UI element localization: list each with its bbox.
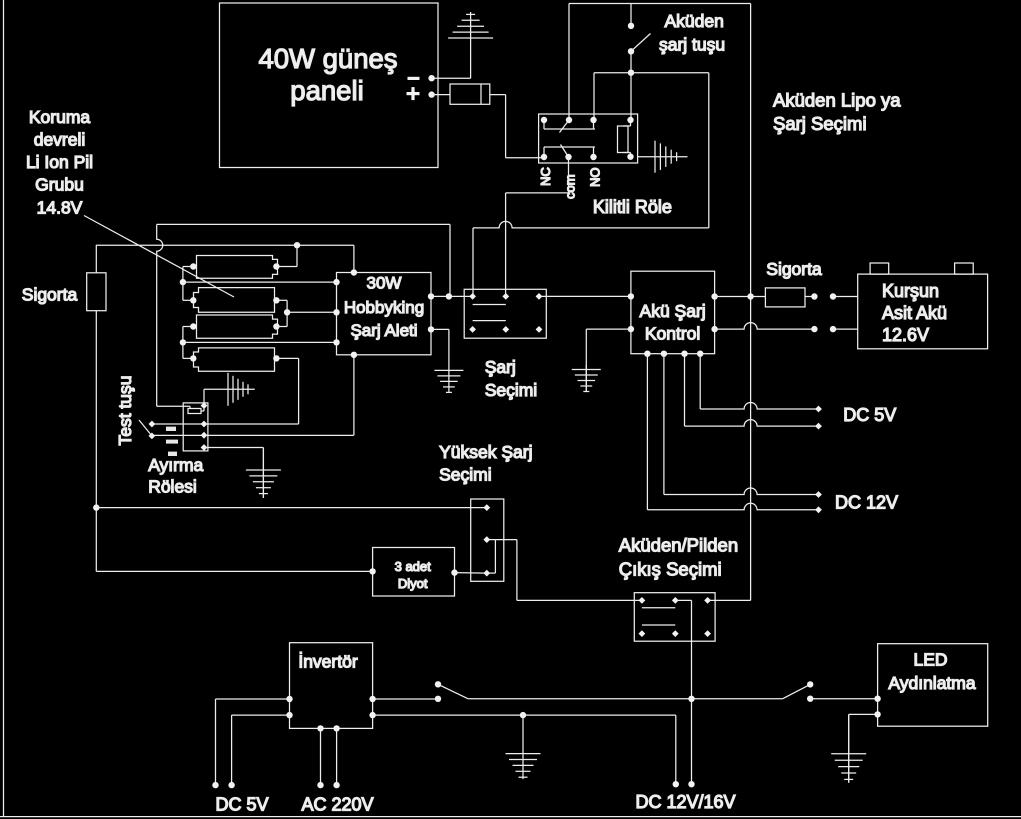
connector J1 pin 3 (536, 293, 543, 300)
node balance bus2 (180, 339, 186, 345)
ground below charger out2 (434, 368, 463, 393)
label DC 12V (835, 493, 898, 513)
svg-text:Hobbyking: Hobbyking (344, 298, 424, 317)
controller pin b3 (681, 351, 687, 357)
wire J3 pin2 output down (675, 600, 691, 784)
wire bus drop to charger top pin (353, 245, 355, 272)
label DC 12V/16V (635, 792, 735, 812)
node DC12V/16V terminal right (688, 781, 694, 787)
wire balance bus1 to charger (183, 281, 337, 283)
wire controller out1 to fuse (715, 296, 766, 298)
relay K1 pin NC-top (541, 117, 547, 123)
svg-text:com: com (563, 174, 578, 199)
svg-text:Seçimi: Seçimi (485, 380, 538, 400)
svg-text:Aküden/Pilden: Aküden/Pilden (619, 535, 738, 556)
label Test tuşu (115, 375, 135, 445)
wire diode to relay NC (490, 95, 541, 158)
wire DC12V upper (hops rail) (664, 354, 819, 495)
connector J1 pin 4 (469, 326, 476, 333)
connector J3 pin 5 (672, 630, 679, 637)
svg-text:Aküden Lipo ya: Aküden Lipo ya (773, 90, 901, 111)
connector J3 pin 1 (639, 597, 646, 604)
charger pin bal1 (333, 279, 339, 285)
node rail junction (747, 293, 753, 299)
wire battery top bus (96, 244, 354, 246)
wire right branch vertical (708, 73, 710, 228)
svg-text:3 adet: 3 adet (395, 559, 432, 574)
svg-text:Rölesi: Rölesi (148, 477, 197, 497)
svg-text:Sigorta: Sigorta (22, 285, 78, 305)
wire loop top horizontal (157, 223, 450, 225)
label Sigorta (right) (766, 259, 822, 279)
switch S1 arm (Aküden şarj tuşu) (631, 34, 651, 52)
connector J1 pin 2 (502, 293, 509, 300)
battery cell B1 (197, 256, 278, 279)
wire charger out1 to connector (431, 295, 473, 297)
node cell1 minus (190, 263, 196, 269)
ground on 12V feed (506, 715, 541, 779)
wire NO branch horizontal (594, 72, 709, 74)
charger pin bal2 (333, 309, 339, 315)
svg-text:İnvertör: İnvertör (298, 652, 357, 672)
node DC5V out terminal 2 (228, 782, 234, 788)
LED pin 1 (874, 696, 880, 702)
connector J3 link bars (642, 608, 675, 625)
node output junction (688, 696, 694, 702)
node cell3 minus (190, 323, 196, 329)
svg-text:Şarj Seçimi: Şarj Seçimi (773, 113, 867, 134)
relay K1 pin com-top (566, 117, 572, 123)
node cell1 plus (273, 263, 279, 269)
charger pin top (351, 269, 357, 275)
controller pin out2 (711, 326, 717, 332)
charger pin bal3 (333, 339, 339, 345)
wire J2 pin2 output (495, 540, 642, 601)
wire DC12V lower (hops rail) (647, 354, 818, 510)
wire fuse to terminal (805, 296, 814, 298)
inverter label (298, 652, 357, 672)
leader line to battery pack (84, 216, 234, 298)
relay K1 top switch arm (560, 120, 570, 133)
svg-text:Akü Şarj: Akü Şarj (640, 301, 706, 321)
diode block label (395, 559, 432, 591)
node terminal a2 (830, 293, 836, 299)
inverter pin R2 (369, 712, 375, 718)
relay K1 bottom switch arm (561, 145, 569, 158)
node diode block right pin (451, 569, 457, 575)
wire loop right drop (449, 224, 451, 296)
wire balance link cells3-4 left (183, 327, 193, 359)
wire J2 pin2 inner jog (487, 540, 496, 574)
charger pin bottom (351, 352, 357, 358)
node DC12V/16V terminal left (673, 781, 679, 787)
node DC12V lower terminal (815, 506, 822, 513)
inverter pin B2 (333, 725, 339, 731)
label NC (538, 167, 553, 186)
connector J2 pin 3 (483, 570, 490, 577)
battery cell B4 (194, 348, 275, 371)
label com (563, 174, 578, 199)
node balance bus3 (284, 309, 290, 315)
node AC220V terminal 2 (333, 782, 339, 788)
relay K2 pin 2 (201, 421, 208, 428)
inverter pin B1 (317, 725, 323, 731)
node terminal b1 (811, 326, 817, 332)
connector J3 box (Çıkış Seçimi) (634, 593, 715, 642)
svg-text:NC: NC (538, 167, 553, 186)
wire NO net to connector pin1 (473, 221, 709, 297)
panel plus terminal mark (407, 87, 420, 100)
svg-text:DC 12V: DC 12V (835, 493, 898, 513)
solar panel PV1 box (220, 3, 439, 168)
ground at relay K1 coil (638, 141, 688, 173)
relay K1 pin NO-top (590, 117, 596, 123)
wire fuse rail to diode block (96, 570, 372, 572)
node DC5V upper terminal (815, 406, 822, 413)
wire balance link cells1-2 left (183, 267, 193, 301)
svg-text:Aküden: Aküden (665, 11, 724, 31)
ground (antenna style) at panel minus (448, 12, 493, 78)
svg-text:paneli: paneli (290, 75, 363, 106)
wire balance link cells2-3 right (276, 300, 287, 326)
relay K2 pin coil (201, 402, 208, 409)
svg-text:Kurşun: Kurşun (882, 281, 939, 301)
relay K1 pin com (565, 154, 571, 160)
relay K1 coil pin bottom (627, 154, 633, 160)
svg-text:şarj tuşu: şarj tuşu (659, 35, 725, 55)
node top bus junction (294, 242, 300, 248)
wire loop left drop (hops battery bus) (157, 224, 188, 406)
wire inverter DC5V out2 (232, 715, 290, 785)
wire DC5V upper (hops rail) (700, 354, 818, 409)
svg-text:Koruma: Koruma (29, 107, 91, 127)
controller pin in1 (628, 293, 634, 299)
svg-text:Çıkış Seçimi: Çıkış Seçimi (619, 559, 722, 580)
node LED switch contact low (807, 696, 813, 702)
lead-acid battery BT1 box (858, 274, 988, 349)
label Yüksek Şarj Seçimi (439, 442, 532, 485)
relay K1 box (Kilitli Röle) (539, 114, 638, 163)
wire terminal to battery minus (833, 328, 858, 330)
svg-text:LED: LED (913, 650, 947, 670)
LED lamp box (LED Aydınlatma) (878, 644, 988, 727)
wire switch to relay coil (630, 51, 632, 120)
connector J2 pin 1 (483, 504, 490, 511)
wire top bus (569, 3, 751, 5)
controller pin b4 (697, 351, 703, 357)
svg-text:Test tuşu: Test tuşu (115, 375, 135, 445)
svg-text:Kilitli Röle: Kilitli Röle (593, 197, 672, 217)
wire terminal to battery plus (833, 296, 858, 298)
wire relay K2 pin4 to ground (204, 448, 263, 499)
test switch contact top (149, 421, 156, 428)
wire fuse top lead (95, 245, 97, 273)
wire J3 pin3 to rail (708, 599, 751, 601)
svg-text:Kontrol: Kontrol (645, 324, 700, 344)
svg-text:devreli: devreli (34, 130, 86, 150)
node inverter switch contact low (435, 696, 441, 702)
wire cell4 plus to Ayırma relay (152, 358, 299, 424)
node cell4 minus (190, 355, 196, 361)
connector J1 pin 1 (469, 293, 476, 300)
ground at relay K2 coil (204, 373, 255, 406)
wire com to charge-select connector (506, 157, 569, 297)
LED pin 2 (874, 711, 880, 717)
border frame bottom edge (0, 816, 1021, 818)
node cell3 plus (273, 323, 279, 329)
svg-text:Diyot: Diyot (398, 576, 428, 591)
wire inverter 12V feed (373, 715, 676, 784)
node panel minus (428, 75, 434, 81)
connector J2 box (Yüksek Şarj Seçimi) (471, 499, 504, 581)
wire inverter DC5V out1 (216, 699, 290, 785)
ground at LED (831, 714, 866, 782)
wire connector J1 to charge controller (539, 295, 631, 297)
ground at relay K2 pin4 (246, 448, 281, 499)
connector J3 pin 3 (704, 597, 711, 604)
wire main output bus (468, 698, 783, 700)
connector J1 box (Şarj Seçimi) (464, 289, 546, 338)
node switch S1 top (628, 23, 634, 29)
wire fuse rail to J2 top (96, 507, 487, 509)
node LED switch contact high (807, 681, 813, 687)
relay K2 box (Ayırma Rölesi) (183, 403, 208, 451)
relay K1 coil (618, 120, 631, 157)
wire controller ground (586, 329, 631, 392)
label Koruma devreli Li Ion Pil Grubu 14.8V (26, 107, 93, 218)
test switch arm (139, 420, 152, 436)
label Sigorta (left) (22, 285, 78, 305)
diode block box (3 adet Diyot) (373, 548, 455, 597)
svg-text:Ayırma: Ayırma (148, 455, 203, 475)
inverter pin R1 (369, 696, 375, 702)
node DC5V out terminal 1 (212, 782, 218, 788)
connector J1 pin 6 (536, 326, 543, 333)
node fuse rail junction (93, 504, 99, 510)
svg-text:40W güneş: 40W güneş (258, 43, 397, 74)
switch S3 arm (LED) (783, 684, 811, 698)
fuse F2 (right Sigorta) (765, 288, 805, 307)
wire diode block to J2 pin3 (455, 572, 487, 575)
wire relay K2 output (152, 434, 354, 436)
relay K1 pin NO (590, 154, 596, 160)
svg-text:Aydınlatma: Aydınlatma (888, 673, 975, 693)
svg-text:14.8V: 14.8V (37, 198, 83, 218)
node panel plus (428, 91, 434, 97)
label NO (588, 168, 603, 188)
connector J2 pin 2 (483, 536, 490, 543)
charger pin out2 (428, 326, 434, 332)
label Aküden şarj tuşu (659, 11, 725, 55)
label DC 5V (bottom) (215, 795, 268, 815)
wire NO branch drop (593, 73, 595, 120)
border frame left edge (3, 0, 5, 817)
wire branch to cell1 plus (276, 245, 297, 266)
svg-text:Yüksek Şarj: Yüksek Şarj (439, 442, 532, 462)
node tee above connector (446, 293, 452, 299)
relay K1 coil pin top (627, 117, 633, 123)
node inverter switch contact high (435, 681, 441, 687)
connector J1 link bars (473, 305, 506, 321)
wire switch upper segment (630, 4, 632, 26)
node diode block left pin (369, 568, 375, 574)
node cell2 plus (273, 297, 279, 303)
ground at controller input (572, 365, 601, 392)
wire inverter AC out2 (336, 728, 338, 785)
svg-text:Li Ion Pil: Li Ion Pil (26, 152, 93, 172)
relay K2 pin 4 (201, 444, 208, 451)
diode D1 (block with cathode band) (450, 84, 490, 104)
label Aküden Lipo ya / Şarj Seçimi (773, 90, 901, 135)
node DC5V lower terminal (815, 423, 822, 430)
svg-text:AC 220V: AC 220V (301, 795, 373, 815)
node AC220V terminal 1 (317, 782, 323, 788)
wire controller out2 to terminal (hops rail) (715, 323, 815, 330)
node junction coil feed (628, 70, 634, 76)
controller U2 box (Akü Şarj Kontrol) (631, 271, 715, 354)
relay K2 coil (188, 406, 204, 414)
charger U1 label (344, 274, 424, 341)
wire fuse bottom rail (95, 311, 97, 572)
connector J3 pin 2 (672, 597, 679, 604)
relay K1 pin NC (541, 154, 547, 160)
svg-text:DC 12V/16V: DC 12V/16V (635, 792, 735, 812)
LED label (888, 650, 975, 694)
wire panel plus to diode (432, 94, 450, 96)
node terminal b2 (830, 326, 836, 332)
wire LED ground (849, 714, 878, 782)
node terminal a1 (811, 293, 817, 299)
controller U2 label (640, 301, 706, 344)
svg-text:NO: NO (588, 168, 603, 188)
inverter pin L1 (286, 696, 292, 702)
svg-text:Grubu: Grubu (35, 175, 84, 195)
node cell2 minus (190, 297, 196, 303)
svg-text:30W: 30W (367, 274, 402, 293)
controller pin b2 (661, 351, 667, 357)
node DC12V upper terminal (815, 491, 822, 498)
relay K1 bottom contact leads (544, 147, 595, 157)
controller pin out1 (711, 293, 717, 299)
svg-text:Şarj: Şarj (485, 357, 516, 377)
wire panel minus to antenna ground (432, 77, 471, 79)
charger pin out1 (428, 293, 434, 299)
wire charger bottom pin down (353, 355, 355, 435)
label Aküden/Pilden Çıkış Seçimi (619, 535, 738, 580)
connector J3 pin 4 (639, 630, 646, 637)
label DC 5V (843, 405, 896, 425)
svg-text:12.6V: 12.6V (882, 325, 929, 345)
switch S2 arm (inverter) (438, 684, 468, 699)
node ground junction on 12V feed (520, 712, 526, 718)
svg-text:Şarj Aleti: Şarj Aleti (350, 321, 417, 340)
test switch contact bottom (149, 433, 156, 440)
node cell4 plus (273, 355, 279, 361)
svg-text:Asit Akü: Asit Akü (882, 303, 947, 323)
battery cell B3 (197, 315, 278, 338)
wire balance bus3 to charger (287, 311, 336, 313)
panel minus terminal mark (408, 77, 420, 80)
relay K2 pin 3 (201, 432, 208, 439)
inverter U3 box (İnvertör) (290, 643, 373, 729)
label Kilitli Röle (593, 197, 672, 217)
label Şarj Seçimi (485, 357, 538, 400)
svg-text:Seçimi: Seçimi (439, 465, 492, 485)
controller pin in2 (628, 326, 634, 332)
label AC 220V (301, 795, 373, 815)
inverter pin L2 (286, 712, 292, 718)
controller pin b1 (644, 351, 650, 357)
node switch S1 bottom (628, 48, 634, 54)
wire DC5V lower (hops rail) (685, 354, 819, 426)
svg-text:Sigorta: Sigorta (766, 259, 822, 279)
wire switch to LED box (810, 698, 877, 700)
wire relay K2 coil to ground (203, 389, 205, 405)
charger U1 box (30W Hobbyking) (337, 273, 432, 355)
battery BT1 terminal bumps (870, 263, 973, 274)
connector J1 pin 5 (502, 326, 509, 333)
connector J3 pin 6 (704, 630, 711, 637)
wire inverter input (373, 698, 438, 700)
relay K2 tiny labels (166, 427, 178, 456)
battery BT1 label (882, 281, 947, 345)
relay K1 top contact leads (544, 120, 595, 129)
wire charger out2 to ground (431, 329, 449, 368)
wire inverter AC out1 (320, 728, 322, 785)
svg-text:DC 5V: DC 5V (843, 405, 896, 425)
label Ayırma Rölesi (148, 455, 203, 497)
solar panel label (258, 43, 397, 106)
battery cell B2 (194, 288, 275, 313)
wire battery rail (vertical) (750, 4, 752, 601)
wire left drop to relay contact (568, 4, 570, 121)
fuse F1 (left Sigorta) (87, 273, 106, 311)
wire balance bus2 to charger (183, 341, 337, 343)
node balance bus1 (180, 279, 186, 285)
svg-text:DC 5V: DC 5V (215, 795, 268, 815)
